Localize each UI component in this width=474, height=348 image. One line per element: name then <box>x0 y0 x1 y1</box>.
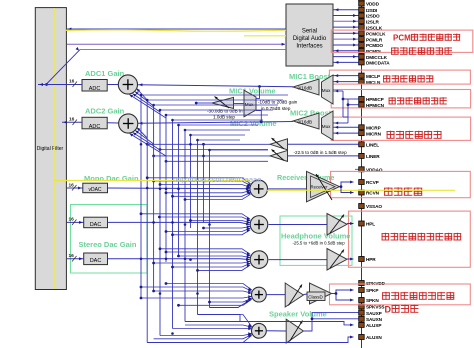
wire: serial interface to digital filter (top) <box>67 28 286 30</box>
pin HPMICN <box>359 102 385 108</box>
wire: MUX3 input stub from MIC2 line <box>256 111 261 122</box>
mixer M7 (aux speaker mixer) <box>252 323 267 338</box>
wire: line bypass branches <box>160 149 268 151</box>
wire: mixer M6 to speaker amp <box>266 294 285 296</box>
svg-text:RCVP: RCVP <box>366 180 379 185</box>
bus width 16 marker ADC1 <box>73 82 78 88</box>
amplifier U4 ClassD <box>310 283 332 304</box>
svg-text:Mux: Mux <box>245 102 254 107</box>
pin VDDAO <box>359 167 383 173</box>
block DAC1 <box>84 217 108 228</box>
svg-text:RCVN: RCVN <box>366 191 380 196</box>
svg-text:Digital Filter: Digital Filter <box>37 146 64 152</box>
pin SPKP <box>359 288 379 294</box>
pin PCMDI <box>359 48 381 54</box>
svg-text:ALUXN: ALUXN <box>366 335 382 340</box>
annotation box: PCM digital output <box>331 30 473 52</box>
svg-text:ADC1 Gain: ADC1 Gain <box>85 69 125 78</box>
annotation box: connect secondary microphone <box>331 117 470 140</box>
svg-text:Serial: Serial <box>302 29 317 35</box>
svg-text:PCMDO: PCMDO <box>366 43 383 48</box>
bus top hook wires <box>140 94 288 152</box>
green box Headphone Volume <box>280 216 352 265</box>
wire: digital filter to vDAC <box>67 187 83 189</box>
amplifier aux speaker <box>286 319 303 343</box>
svg-text:16: 16 <box>69 217 75 223</box>
pin ALUXP <box>359 322 382 328</box>
wire fan into mixer M4 <box>141 214 250 220</box>
svg-text:MIC1 Volume: MIC1 Volume <box>229 87 276 96</box>
amplifier U3 Receiver <box>307 171 340 201</box>
svg-text:Mux: Mux <box>322 88 331 93</box>
pin LINEL <box>359 142 380 148</box>
wire: aux amp to SAUXP/SAUXN <box>303 313 358 331</box>
mixer M4 (headphone left mixer) <box>250 216 268 234</box>
pin MICRP <box>359 125 381 131</box>
wire: HPMICP routing <box>342 91 344 117</box>
svg-text:ALUXP: ALUXP <box>366 323 381 328</box>
svg-text:16: 16 <box>69 117 75 123</box>
amplifier speaker pre <box>285 283 303 307</box>
mux MUX1 (MIC1 input select) <box>322 75 334 104</box>
svg-text:SAUXP: SAUXP <box>366 311 382 316</box>
svg-text:-25.5 to +6dB in 0.5dB step: -25.5 to +6dB in 0.5dB step <box>293 241 346 246</box>
wire: DAC1 to headphone mixer M4 <box>108 221 241 223</box>
svg-text:ADC: ADC <box>89 86 101 92</box>
pin SPKVSS <box>359 304 385 310</box>
pin RCVN <box>359 190 380 196</box>
annotation text: connect earpiece <box>384 187 422 195</box>
wire: ADC1 box to mixer M1 <box>107 84 118 86</box>
block ADC1 <box>82 80 107 92</box>
amplifier HP volume left <box>327 214 347 236</box>
block U2 Serial Digital Audio Interfaces <box>286 4 333 66</box>
svg-text:DMICCLK: DMICCLK <box>366 55 388 60</box>
pin VSSAO <box>359 204 383 210</box>
annotation text: connect headphone L/R channels <box>382 233 462 240</box>
wire: HP amp L to HPL pin <box>347 223 354 225</box>
wire: LINER from pin through amp to bus <box>288 155 359 157</box>
wire: receiver amp to RCVP <box>339 182 353 187</box>
wire: mixer M4 to HP amp L <box>269 224 327 226</box>
mixer M2 (ADC2 input mixer) <box>119 114 138 133</box>
wire: MICRP to MUX2 <box>333 126 359 128</box>
pin SAUXN <box>359 316 383 322</box>
svg-text:16: 16 <box>69 183 75 189</box>
watermark yellow segment near serial block <box>244 35 286 37</box>
mixer M5 (headphone right mixer) <box>250 251 268 269</box>
annotation box: connect headset microphone <box>331 90 470 108</box>
wire: MICLN to MUX1 <box>333 81 359 83</box>
pin VDDD <box>359 1 380 7</box>
wire: class D to SPKP <box>332 290 354 294</box>
svg-text:I2SLR: I2SLR <box>366 20 379 25</box>
wire: speaker pre to class D <box>303 294 309 295</box>
svg-text:HPMICP: HPMICP <box>366 97 384 102</box>
wire: bus to ALUXN <box>147 337 353 343</box>
amplifier LINER (-22.5 to 0dB) <box>270 150 288 161</box>
watermark yellow line receiver row <box>267 189 455 191</box>
mux MUX2 (MIC2 input select) <box>322 111 334 140</box>
mixer M6 (speaker mixer) <box>252 287 267 302</box>
pin HPMICP <box>359 97 384 103</box>
svg-text:PCMCLK: PCMCLK <box>366 32 386 37</box>
amplifier MIC volume (-30dB to 0dB) <box>212 97 234 108</box>
mux MUX3 (mic volume source select) <box>244 90 256 117</box>
svg-text:LINEL: LINEL <box>366 143 379 148</box>
wires: serial interface to digital audio pins <box>333 8 359 64</box>
pin I2SCLK <box>359 25 383 31</box>
wire: MICLP to MUX1 <box>333 75 359 77</box>
svg-text:PCM: PCM <box>393 33 411 42</box>
amplifier MIC2 boost 0/16dB <box>293 113 319 129</box>
annotation text: connect main mic <box>383 75 433 82</box>
wire: bus bottom wraps <box>198 315 241 323</box>
annotation text: connect speaker, internal <box>382 292 454 299</box>
pin DMICCLK <box>359 54 388 60</box>
annotation text: connect secondary mic <box>387 131 442 139</box>
svg-text:Headphone Volume: Headphone Volume <box>281 232 350 241</box>
wire: HP amp R to HPR pin <box>347 258 354 260</box>
svg-text:MICRP: MICRP <box>366 126 381 131</box>
pin PCMDO <box>359 43 384 49</box>
svg-text:0/16dB: 0/16dB <box>298 119 313 124</box>
wire: mixer M3 to receiver amp <box>268 188 307 190</box>
wire: mixer M2 to MIC2 boost output <box>137 122 293 124</box>
wire: digital filter to DAC2 <box>67 258 84 260</box>
svg-text:16: 16 <box>69 253 75 259</box>
wire: ADC1 diagonal branch <box>47 50 81 84</box>
pin (cut at top edge) <box>359 0 365 1</box>
wire: vDAC to receiver mixer M3 <box>108 187 250 190</box>
svg-text:MICLP: MICLP <box>366 74 380 79</box>
wire: VDDAO stub <box>355 168 359 170</box>
wire: ADC2 box to mixer M2 <box>107 122 118 124</box>
svg-text:PCMDI: PCMDI <box>366 49 381 54</box>
svg-text:-22.5 to 0dB in 1.5dB step: -22.5 to 0dB in 1.5dB step <box>294 150 348 155</box>
svg-text:I2SDO: I2SDO <box>366 14 380 19</box>
pin HPL <box>359 221 376 227</box>
wire: bus to ALUXP <box>185 322 354 325</box>
svg-text:-30.0dB to 0dB in: -30.0dB to 0dB in <box>207 109 243 114</box>
pin I2SDI <box>359 7 378 13</box>
wire: HPMICN routing <box>347 99 349 123</box>
pin MICLN <box>359 79 381 85</box>
svg-text:LINER: LINER <box>366 154 380 159</box>
block U1 Digital Filter <box>35 8 66 290</box>
annotation box: connect speaker with internal class D amp <box>330 284 471 305</box>
annotation text: connect headset mic <box>389 97 447 104</box>
bus junction dots <box>140 143 211 335</box>
pin RCVP <box>359 180 379 186</box>
svg-text:ADC: ADC <box>89 124 101 130</box>
annotation box: connect main microphone <box>329 70 470 84</box>
svg-text:Mono Dac Gain: Mono Dac Gain <box>84 174 139 183</box>
wire: class D to SPKN <box>336 294 354 301</box>
svg-text:DAC: DAC <box>90 258 102 264</box>
pin SPKN <box>359 298 380 304</box>
svg-text:DAC: DAC <box>90 222 102 228</box>
wire fan into mixer M5 <box>160 249 250 255</box>
wire: mixer M7 to aux amp <box>266 330 286 332</box>
svg-text:16: 16 <box>69 79 75 85</box>
wire fan into mixer M3 <box>147 178 250 184</box>
svg-text:VDDD: VDDD <box>366 2 380 7</box>
svg-text:Speaker Volume: Speaker Volume <box>269 310 327 319</box>
wire: receiver amp to RCVN <box>341 187 354 193</box>
svg-text:SAUXN: SAUXN <box>366 317 383 322</box>
amplifier MIC1 boost 0/16dB <box>293 79 319 95</box>
wire fan into mixer M6 <box>166 284 252 290</box>
svg-text:0/16dB: 0/16dB <box>298 85 313 90</box>
green box Stereo Dac Gain <box>71 205 148 274</box>
svg-text:ADC2 Gain: ADC2 Gain <box>85 107 125 116</box>
pin LINER <box>359 153 381 159</box>
bus width 16 marker DAC1 <box>72 220 77 226</box>
watermark yellow vertical line in Digital Filter <box>53 8 55 289</box>
wire: digital filter to serial interface <box>67 43 285 45</box>
wire: MUX3 output to MIC volume amp <box>234 103 245 105</box>
svg-text:SPKN: SPKN <box>366 298 379 303</box>
wire: MIC volume amp output to bus <box>196 102 212 104</box>
svg-text:nttp:ttblog.csdn.nettt?aaaa: nttp:ttblog.csdn.nettt?aaaa <box>173 175 262 184</box>
wire fan into mixer M1 <box>137 89 148 100</box>
svg-text:SPKVSS: SPKVSS <box>366 305 384 310</box>
pin SAUXP <box>359 310 382 316</box>
pin PCMCLK <box>359 31 386 37</box>
wire fan into mixer M2 <box>137 128 147 139</box>
svg-text:DMICDATA: DMICDATA <box>366 61 390 66</box>
amplifier HP volume right <box>327 249 347 271</box>
svg-text:SPKP: SPKP <box>366 288 378 293</box>
block DAC2 <box>84 253 108 265</box>
wire: LINEL from pin through amp to bus <box>288 143 359 145</box>
pin MICLP <box>359 73 380 79</box>
pin I2SDO <box>359 13 380 19</box>
mixer M1 (ADC1 input mixer) <box>118 75 137 94</box>
amplifier LINEL (-22.5 to 0dB) <box>270 139 288 150</box>
watermark yellow line top <box>66 30 286 31</box>
annotation box: connect earpiece <box>331 171 471 197</box>
block ADC2 <box>82 117 107 129</box>
wire: DAC2 to headphone mixer M5 <box>108 258 241 260</box>
svg-text:MICRN: MICRN <box>366 131 382 136</box>
svg-text:vDAC: vDAC <box>88 187 101 193</box>
wire: mixer M5 to HP amp R <box>269 259 327 261</box>
svg-text:I2SDI: I2SDI <box>366 8 377 13</box>
vertical bus wires (mixing matrix) <box>141 95 210 343</box>
svg-text:Stereo Dac Gain: Stereo Dac Gain <box>79 240 137 249</box>
svg-text:HPL: HPL <box>366 222 375 227</box>
wire: MICRN to MUX2 <box>333 132 359 134</box>
bus width 16 marker DAC2 <box>72 256 77 262</box>
pin SPKVDD <box>359 281 386 287</box>
wire fan into mixer M7 <box>185 325 252 327</box>
svg-text:I2SCLK: I2SCLK <box>366 25 383 30</box>
wire: digital filter to DAC1 <box>67 221 84 223</box>
wire: mixer M1 to MIC1 boost output <box>137 85 293 87</box>
svg-text:HPMICN: HPMICN <box>366 103 385 108</box>
block vDAC <box>83 183 108 193</box>
wire: ADC1 output into digital filter <box>38 84 82 86</box>
watermark yellow line mid <box>54 180 250 182</box>
bus width 16 marker vDAC <box>72 185 77 191</box>
svg-text:HPR: HPR <box>366 257 376 262</box>
pin PCMLR <box>359 37 383 43</box>
svg-text:D: D <box>385 304 392 314</box>
wire: MUX3 input stub from MIC1 line <box>256 87 260 99</box>
pin HPR <box>359 257 377 263</box>
svg-text:Interfaces: Interfaces <box>296 44 322 50</box>
svg-text:Digital Audio: Digital Audio <box>293 36 327 42</box>
pin I2SLR <box>359 19 380 25</box>
chip boundary line <box>361 0 363 348</box>
svg-text:PCMLR: PCMLR <box>366 37 383 42</box>
pin DMICDATA <box>359 60 391 66</box>
wire: ADC2 output into digital filter <box>62 121 82 123</box>
bus width 16 marker ADC2 <box>73 120 78 126</box>
annotation box: connect headphone left right channels <box>349 211 471 267</box>
svg-text:VSSAO: VSSAO <box>366 204 382 209</box>
svg-text:ClassD: ClassD <box>308 295 323 300</box>
svg-text:Mux: Mux <box>322 124 331 129</box>
wire: ADC branch to serial interface <box>80 49 286 51</box>
pin MICRN <box>359 131 382 137</box>
pin ALUXN <box>359 335 383 341</box>
mixer M3 (receiver mixer) <box>250 180 268 198</box>
